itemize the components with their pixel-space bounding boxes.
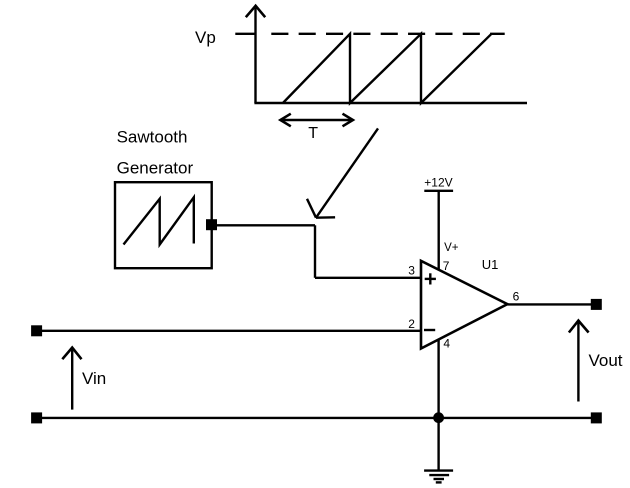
sawtooth generator output terminal: [206, 219, 217, 230]
sawtooth glyph inside box: [124, 197, 194, 244]
wire: pin 4 to ground rail: [437, 339, 439, 418]
waveform vertical axis: [254, 8, 256, 103]
wire: generator output to corner: [217, 224, 315, 226]
wire: inverting input rail: [37, 330, 421, 332]
input terminal bottom-left: [31, 412, 42, 423]
svg-text:6: 6: [513, 290, 520, 304]
Vp dashed level line: [271, 33, 504, 35]
wire: to op-amp + input: [315, 277, 421, 279]
op-amp U1 triangle: [421, 261, 507, 349]
sawtooth generator box: [115, 182, 212, 268]
input terminal top-left: [31, 325, 42, 336]
svg-text:Generator: Generator: [117, 158, 194, 177]
output terminal bottom-right: [591, 412, 602, 423]
op-amp + input symbol: [425, 273, 436, 284]
wire: corner down: [314, 225, 316, 277]
svg-text:V+: V+: [444, 242, 459, 254]
svg-text:2: 2: [408, 317, 415, 331]
+12V power rail bar: [424, 190, 453, 192]
period T arrow: [280, 114, 353, 127]
Vin arrow: [62, 347, 81, 409]
wire: power rail to pin 7: [438, 191, 440, 270]
wire: bottom rail: [37, 417, 596, 419]
svg-text:3: 3: [408, 263, 415, 277]
ground: [424, 418, 453, 483]
waveform horizontal axis: [254, 102, 527, 104]
svg-text:Vin: Vin: [82, 369, 106, 388]
svg-text:T: T: [308, 125, 318, 142]
svg-text:7: 7: [443, 259, 450, 273]
svg-text:Vp: Vp: [195, 28, 216, 47]
Vout arrow: [569, 320, 589, 401]
svg-text:+12V: +12V: [424, 176, 452, 190]
Vp level tick: [235, 33, 254, 35]
svg-text:Sawtooth: Sawtooth: [117, 127, 188, 146]
svg-text:Vout: Vout: [589, 351, 623, 370]
annotation pointer arrow: [307, 128, 378, 217]
output terminal: [591, 299, 602, 310]
junction node: [433, 412, 444, 423]
op-amp - input symbol: [424, 329, 435, 331]
sawtooth waveform trace: [283, 34, 492, 103]
waveform vertical axis arrowhead: [246, 6, 265, 17]
wire: op-amp output: [507, 303, 596, 305]
svg-text:4: 4: [443, 336, 450, 350]
svg-text:U1: U1: [482, 257, 499, 272]
